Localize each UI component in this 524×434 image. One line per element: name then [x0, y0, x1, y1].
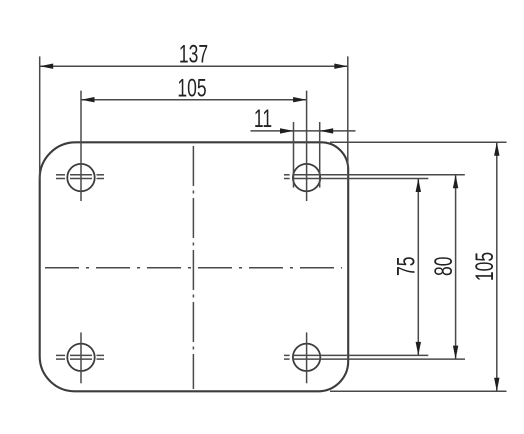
dimension 105 top label — [177, 74, 206, 103]
centerline horizontal — [45, 267, 342, 269]
dimension 11 extension line right — [319, 122, 321, 188]
plate outline — [40, 142, 349, 391]
dimension 137 extension line left — [39, 56, 41, 180]
svg-text:105: 105 — [470, 252, 499, 281]
dimension 75 extension line bottom (from bottom-right hole upper line) — [293, 354, 428, 356]
hole bottom-right — [284, 332, 320, 383]
svg-text:137: 137 — [179, 39, 208, 68]
svg-text:105: 105 — [177, 74, 206, 103]
svg-text:75: 75 — [391, 257, 420, 276]
hole top-right — [284, 164, 320, 191]
dimension 80 line — [453, 175, 458, 359]
dimension 11 line — [251, 128, 356, 133]
dimension 75 line — [416, 179, 421, 356]
dimension 11 label — [254, 104, 272, 133]
dimension 137 line — [40, 64, 348, 69]
dimension 105 top extension line right (through top-right hole) — [306, 91, 308, 201]
dimension 80 extension line bottom (from bottom-right hole lower line) — [293, 358, 465, 360]
dimension 11 extension line left — [293, 122, 295, 188]
dimension 75 label — [391, 257, 420, 276]
dimension 80 label — [429, 257, 458, 276]
dimension 137 label — [179, 39, 208, 68]
dimension 105 top line — [81, 97, 307, 102]
dimension 105 right extension line top (plate top edge extended) — [330, 141, 507, 143]
dimension 75 extension line top (from top-right hole lower line) — [293, 178, 428, 180]
dimension 137 extension line right — [347, 56, 349, 171]
dimension 105 top extension line left (through top-left hole) — [80, 91, 82, 201]
svg-text:11: 11 — [254, 104, 272, 133]
dimension 105 right line — [494, 142, 499, 391]
hole top-left — [56, 164, 104, 191]
svg-text:80: 80 — [429, 257, 458, 276]
centerline vertical — [192, 146, 194, 389]
hole bottom-left — [56, 332, 104, 383]
dimension 105 right label — [470, 252, 499, 281]
dimension 80 extension line top (from top-right hole upper line) — [293, 174, 465, 176]
dimension 105 right extension line bottom (plate bottom edge extended) — [330, 390, 507, 392]
